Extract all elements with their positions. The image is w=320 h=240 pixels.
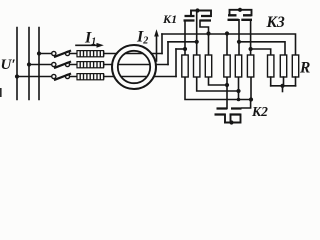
svg-text:К2: К2	[251, 104, 268, 119]
svg-text:К1: К1	[162, 12, 177, 26]
svg-text:R: R	[299, 60, 310, 77]
svg-text:U′: U′	[1, 57, 16, 73]
svg-text:К3: К3	[266, 14, 286, 31]
